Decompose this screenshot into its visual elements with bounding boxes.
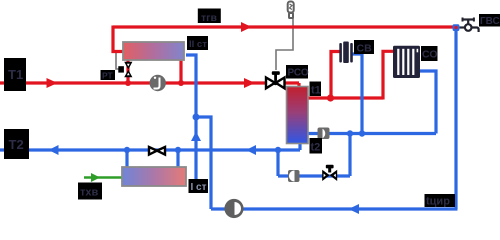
svg-text:Т2: Т2 [9, 137, 24, 152]
svg-text:I ст: I ст [191, 182, 207, 193]
svg-text:ГВС: ГВС [480, 16, 500, 27]
svg-text:РСО: РСО [288, 68, 309, 79]
svg-text:РТ: РТ [102, 71, 114, 81]
svg-text:СВ: СВ [357, 43, 373, 55]
svg-text:t1: t1 [311, 85, 321, 97]
svg-text:tцир: tцир [426, 196, 450, 208]
svg-text:t2: t2 [311, 142, 321, 154]
svg-text:тхв: тхв [80, 187, 99, 199]
svg-text:II ст: II ст [189, 39, 207, 50]
svg-text:тгв: тгв [201, 12, 218, 24]
svg-text:Т1: Т1 [8, 67, 23, 82]
svg-text:СО: СО [422, 49, 438, 61]
